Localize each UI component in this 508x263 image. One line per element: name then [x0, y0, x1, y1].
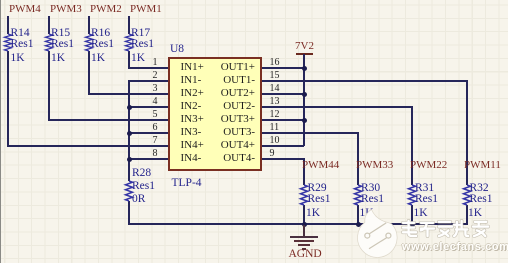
watermark logo circle: [355, 203, 508, 263]
pin number 4: [139, 97, 158, 107]
node PWM4 net label: [9, 4, 41, 15]
node PWM11 net label: [464, 160, 501, 171]
wire PWM3 vertical upper: [48, 16, 50, 34]
junction dot bus at pin6: [127, 131, 132, 136]
node PWM22 net label: [410, 160, 447, 171]
wire pin16 stub: [262, 67, 304, 69]
watermark chinese text (stylized strokes): [401, 219, 491, 238]
wire pin4 stub to bus: [128, 106, 168, 108]
pin number 6: [139, 123, 158, 133]
junction dot ground bus at R30: [356, 222, 361, 227]
wire R31 bottom to ground bus: [411, 205, 413, 225]
resistor R14 zigzag: [3, 34, 13, 51]
pin name OUT2+: [219, 87, 255, 100]
resistor R15 zigzag: [44, 34, 54, 51]
wire pin11 to PWM33 column: [262, 132, 359, 134]
pin name IN2+: [181, 87, 204, 100]
op-to IC U8 body: [168, 57, 262, 172]
pin number 14: [270, 84, 280, 94]
wire PWM2 vertical upper: [88, 16, 90, 34]
resistor R30 zigzag: [353, 185, 363, 205]
resistor R31 zigzag: [407, 185, 417, 205]
pin number 3: [139, 84, 158, 94]
wire ground bus horizontal: [128, 223, 468, 225]
pin number 7: [139, 136, 158, 146]
pin name OUT4-: [219, 152, 255, 165]
power port 7V2 label: [295, 41, 314, 52]
pin name OUT3+: [219, 113, 255, 126]
pin number 11: [270, 123, 280, 133]
wire PWM4 vertical lower: [7, 51, 9, 147]
wire PWM22 vertical (pin13 down to R31): [411, 106, 413, 185]
junction dot rail at pin12: [302, 118, 307, 123]
node PWM44 net label: [302, 160, 339, 171]
pin name OUT1-: [219, 74, 255, 87]
wire PWM1 vertical lower: [128, 51, 130, 69]
wire PWM3 vertical lower: [48, 51, 50, 121]
pin name OUT2-: [219, 100, 255, 113]
wire PWM1 horizontal to pin1: [128, 67, 168, 69]
wire R32 bottom to ground bus: [466, 205, 468, 225]
ground AGND label: [289, 249, 322, 260]
wire PWM2 horizontal to pin3: [88, 93, 169, 95]
junction dot rail at pin14: [302, 92, 307, 97]
pin number 10: [270, 136, 280, 146]
value TLP-4: [172, 178, 202, 189]
resistor R17 zigzag: [124, 34, 134, 51]
wire PWM44 vertical (pin9 down to R29): [303, 158, 305, 185]
wire pin10 stub: [262, 145, 304, 147]
wire PWM33 vertical (pin11 down to R30): [357, 132, 359, 185]
wire R29 bottom to ground bus: [303, 205, 305, 225]
pin name IN1-: [181, 74, 202, 87]
junction dot rail at pin16: [302, 66, 307, 71]
pin name IN2-: [181, 100, 202, 113]
pin number 13: [270, 97, 280, 107]
pin number 16: [270, 58, 280, 68]
node PWM1 net label: [130, 4, 162, 15]
wire PWM11 vertical (pin15 down to R32): [466, 80, 468, 185]
wire PWM4 horizontal to pin7: [7, 145, 168, 147]
wire pin6 stub to bus: [128, 132, 168, 134]
junction dot bus at pin8: [127, 157, 132, 162]
pin name IN1+: [181, 61, 204, 74]
wire R28 bottom to ground bus: [128, 201, 130, 225]
pin number 15: [270, 71, 280, 81]
wire pin12 stub: [262, 119, 304, 121]
pin name IN4+: [181, 139, 204, 152]
sheet edge line: [0, 0, 1, 263]
junction dot ground bus at R29: [302, 222, 307, 227]
wire pin8 stub to bus: [128, 158, 168, 160]
pin number 1: [139, 58, 158, 68]
resistor R32 zigzag: [462, 185, 472, 205]
wire PWM2 vertical lower: [88, 51, 90, 95]
resistor R29 zigzag: [299, 185, 309, 205]
wire pin15 to PWM11 column: [262, 80, 468, 82]
pin name OUT4+: [219, 139, 255, 152]
designator U8: [170, 44, 184, 55]
watermark url text: [402, 242, 508, 253]
pin name IN4-: [181, 152, 202, 165]
wire pin13 to PWM22 column: [262, 106, 413, 108]
resistor R16 zigzag: [84, 34, 94, 51]
pin name IN3+: [181, 113, 204, 126]
wire pin2 stub to bus: [128, 80, 168, 82]
pin number 12: [270, 110, 280, 120]
pin name IN3-: [181, 126, 202, 139]
node PWM3 net label: [50, 4, 82, 15]
node PWM33 net label: [356, 160, 393, 171]
wire 7V2 rail vertical: [303, 54, 305, 146]
wire PWM4 vertical upper: [7, 16, 9, 34]
pin number 8: [139, 149, 158, 159]
pin number 2: [139, 71, 158, 81]
pin number 9: [270, 149, 275, 159]
wire PWM1 vertical upper: [128, 16, 130, 34]
junction dot ground bus at R31: [410, 222, 415, 227]
node PWM2 net label: [90, 4, 122, 15]
pin number 5: [139, 110, 158, 120]
wire pin14 stub: [262, 93, 304, 95]
junction dot bus at pin4: [127, 105, 132, 110]
power port 7V2 bar: [296, 53, 313, 55]
wire PWM3 horizontal to pin5: [48, 119, 169, 121]
resistor R28 zigzag: [124, 181, 134, 201]
wire pin9 to PWM44 column: [262, 158, 305, 160]
pin name OUT1+: [219, 61, 255, 74]
ground AGND symbol: [303, 225, 305, 236]
wire IN- bus vertical upper (pin2 to R28 top): [128, 80, 130, 181]
wire R30 bottom to ground bus: [357, 205, 359, 225]
pin name OUT3-: [219, 126, 255, 139]
